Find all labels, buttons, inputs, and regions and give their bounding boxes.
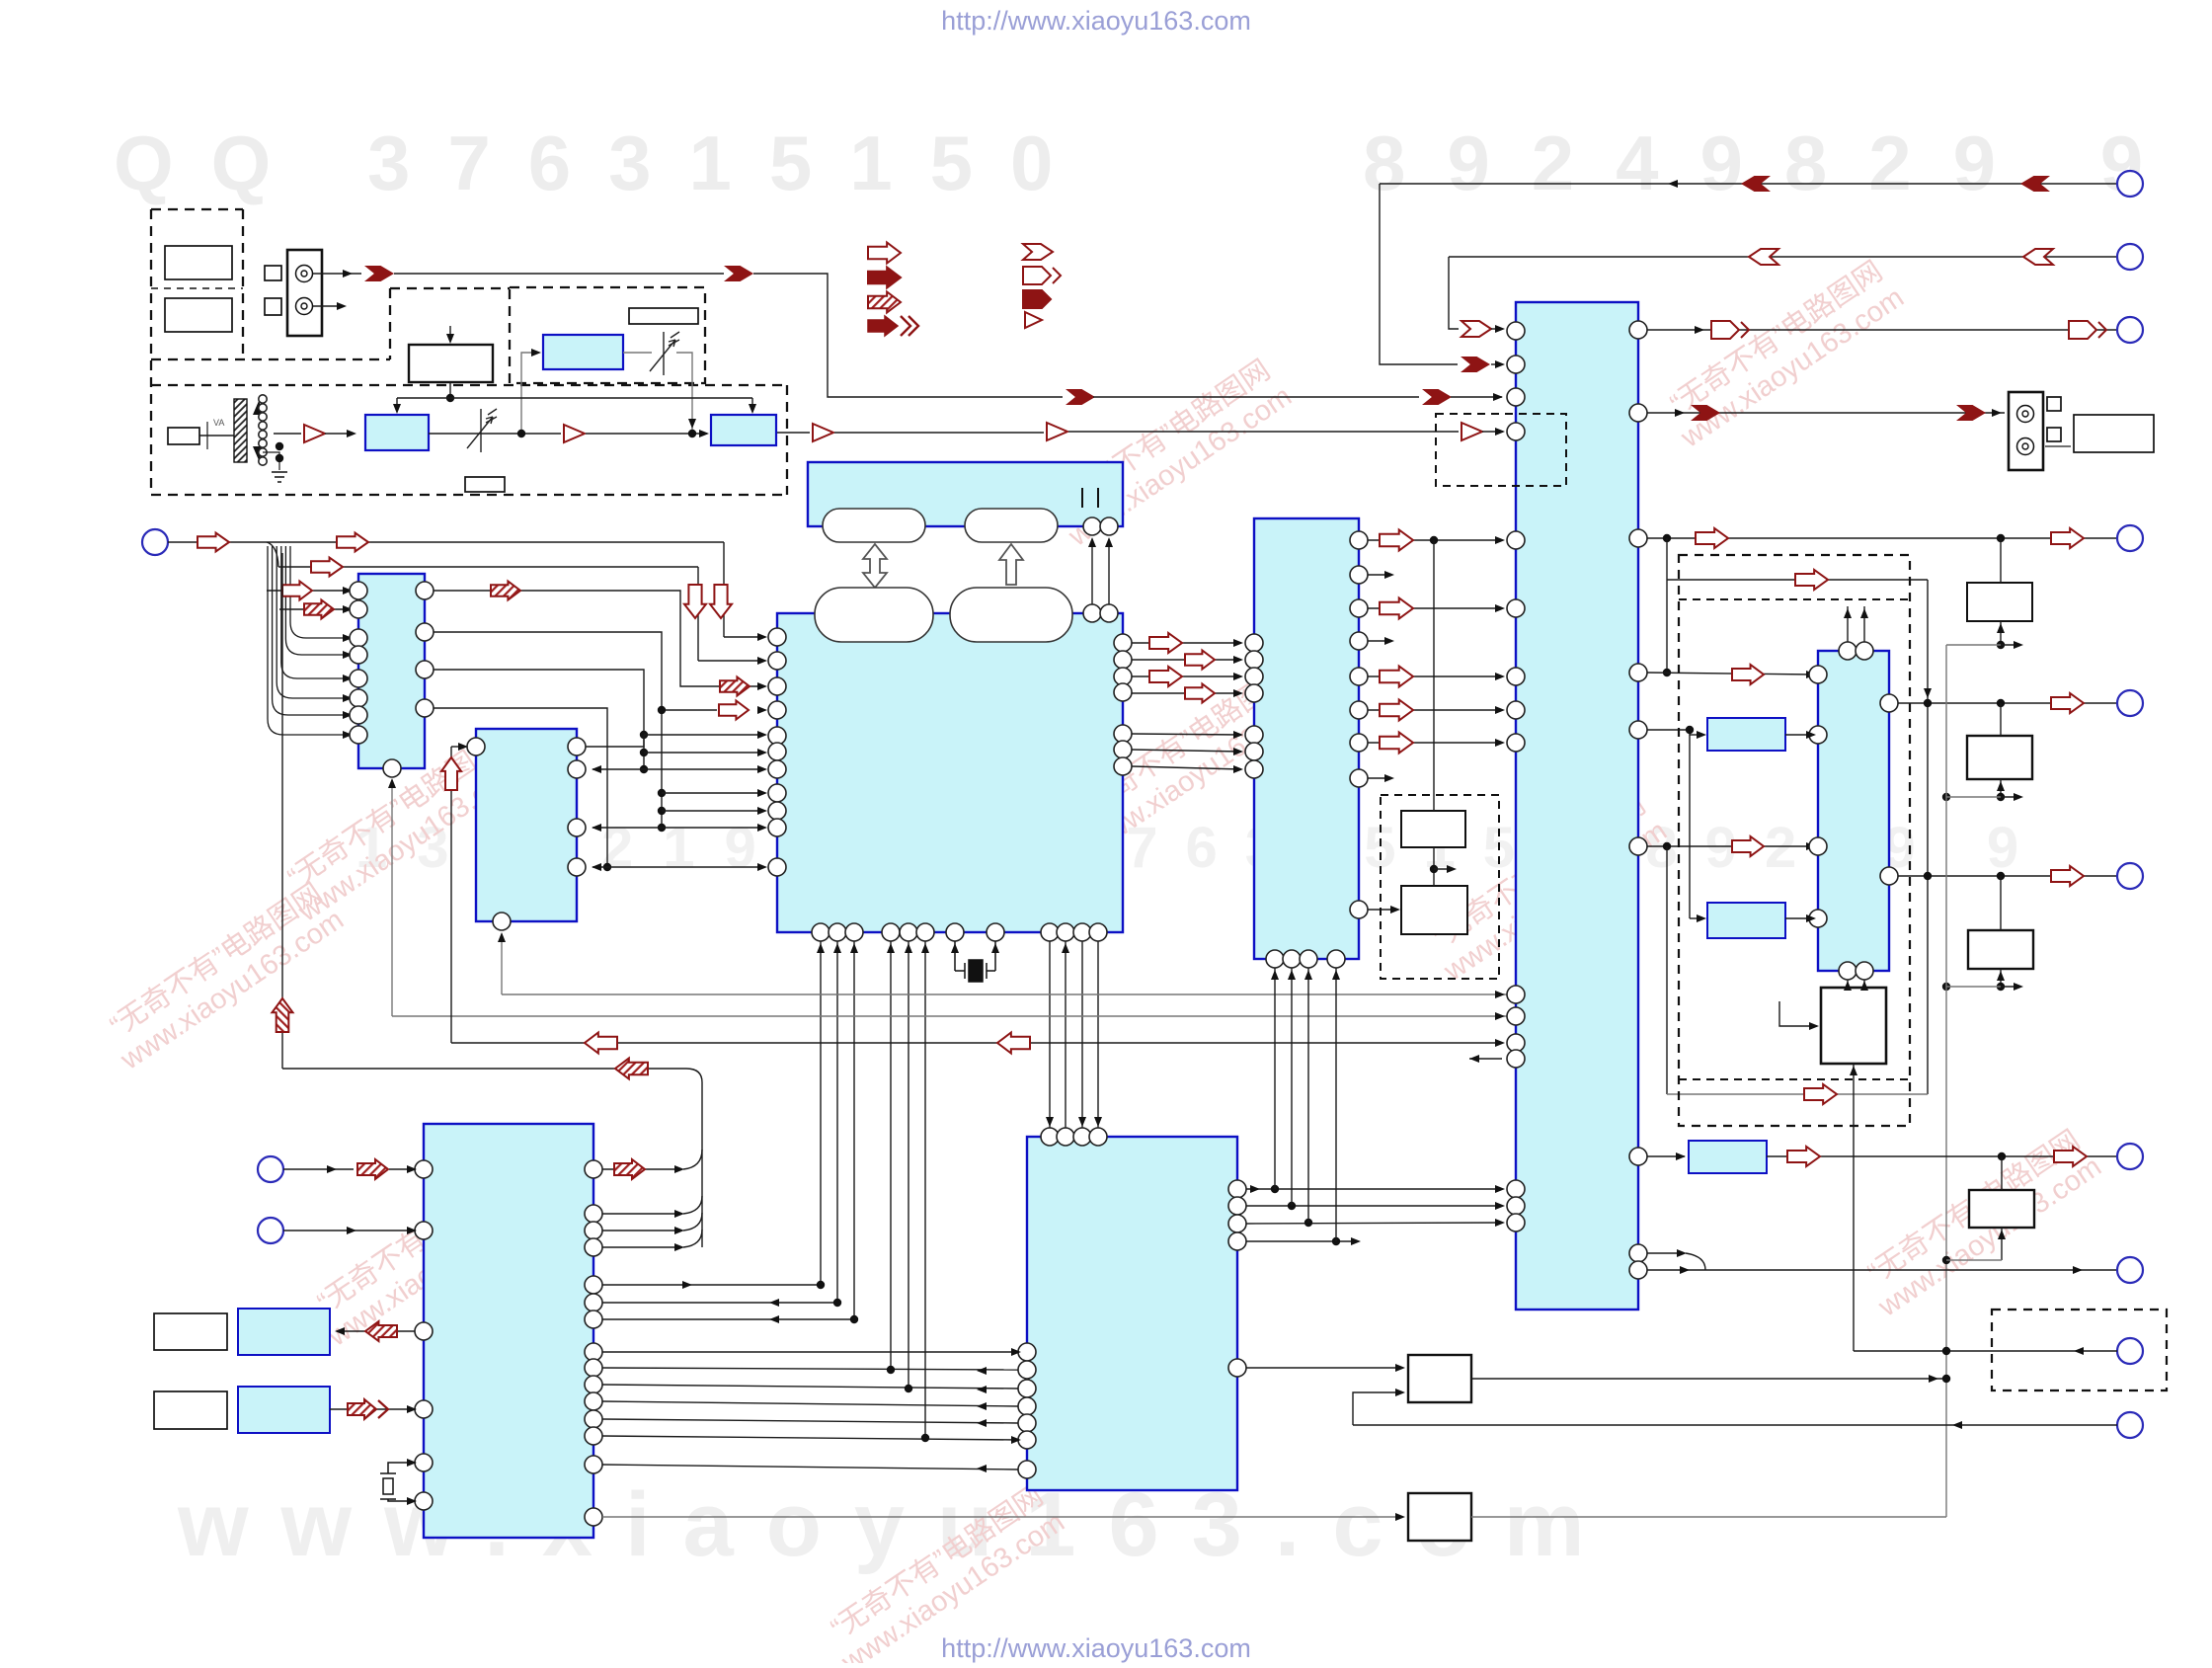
arrow solid line3 a [1066,389,1095,405]
ah buses up [817,943,929,953]
stadium DRAM1 [823,509,925,542]
wire BL1b [389,1168,415,1170]
wire pot to junction [676,353,692,431]
control bus x711 [701,1082,703,1247]
arrowhead into F2 [699,430,709,437]
RCA jack J1 [287,250,322,336]
arrow hatched B1 out [491,582,520,600]
arrow open r1 683 [1732,665,1764,684]
wire W2 bottom [2000,779,2002,797]
wire B4 1229 out [602,1213,681,1215]
DSP bar bottom pins [1083,517,1118,535]
switch triangle down [253,446,265,460]
legend arrow solid chevrons [868,316,918,336]
dashed box A right edge [242,209,244,359]
wire R1-M 1 [1847,980,1849,988]
bundle curve 1263 [683,1230,702,1247]
chevron left w6 b [2023,249,2053,265]
buffer triangle 2 [564,425,585,442]
dashed box D AGC [510,287,705,383]
ah b4c3 arrows [977,1348,1021,1472]
wire s1 in [1690,734,1703,736]
H left pins [1507,322,1525,1231]
jack J2 pad bottom [2047,428,2061,441]
C2 bottom pins [1266,950,1345,968]
wire h545 out [1647,537,2117,539]
wire DSP-C2 685 [1132,675,1241,677]
wire B4 1336 [602,1318,854,1320]
DSP right pins [1114,634,1132,775]
B3 bottom pin [493,913,511,930]
ah stub582 [1384,571,1394,579]
label rect ANT2 [165,298,232,332]
arrow big down x707 [684,585,706,618]
terminal circle R3t [2117,317,2143,343]
wire DSP-C2 668 [1132,659,1241,661]
wire N top [2001,1156,2003,1190]
wire G1 feed up [521,353,537,434]
junction 1238 [1304,1219,1312,1227]
label rect in box D [629,308,698,324]
wire bar-body link1 [1091,539,1093,604]
ah b4 1427 [407,1405,417,1413]
wire jack J2 link [2045,445,2071,447]
crystal X1 DSP [955,941,995,982]
arrow solid jack out [364,266,394,281]
arrow open loop1108 [1804,1084,1837,1104]
stadium DEC1 [815,588,933,642]
arrow solid w5 in [1461,357,1490,372]
wire B4 1319 [602,1302,837,1304]
junction W1 foot [1997,641,2005,649]
arrow open dc668 [1185,651,1215,670]
wire B4-C3 1483 [602,1465,1018,1469]
wire x1452 bus [1433,540,1435,811]
arrow solid w5 a [1741,176,1771,192]
wire W3 foot link [1946,986,2001,988]
ah r1 857 [1806,842,1816,850]
junction W2 foot [1942,793,2005,801]
legend arrow open [868,243,901,264]
wire G0 tee right [450,397,752,399]
wire BL1 [283,1168,354,1170]
wire B3 pin756 link [586,735,644,747]
arrow open w7 [2051,693,2084,713]
arrowhead into F1 [347,430,356,437]
terminal circle R9 [2117,1338,2143,1364]
dashed box I tuner ctrl [1436,414,1566,486]
junction w545 [1663,534,2005,542]
ah h719 [1495,706,1505,714]
arrow hatched up x286 [273,998,293,1032]
arrow open left y1056 a [585,1033,617,1054]
ah h369 [1495,360,1505,368]
loop y587 [1667,579,1928,581]
wire bus707 to DSP pin [698,660,764,662]
bus down x733 [723,542,725,637]
ah h685 [1495,673,1505,680]
wire M bottom [1853,1064,1855,1351]
rect L1 [154,1313,227,1350]
wire6 top [1449,256,2117,258]
wire switch rect link [199,435,234,437]
ah loop into w7 [1924,688,1932,698]
bus down x707 [697,567,699,661]
pentagon w3 b [2069,321,2106,339]
ah r1 top [1844,608,1868,618]
block preamp F1 [365,415,429,450]
wire C2-H 547 [1368,539,1502,541]
arrow open dc651 [1149,633,1182,653]
block CL2 [238,1387,330,1433]
ah 1257 [1351,1237,1361,1245]
block T1 [1689,1141,1767,1173]
legend arrow filled [868,268,901,288]
pentagon w3 a [1711,321,1749,339]
bus X1 [1945,645,1947,1517]
j1319 [833,1299,841,1307]
wire B4-C3 1385 [602,1368,1018,1370]
arrow open ch616 [1380,598,1413,619]
wire x457 up [450,747,452,1043]
buffer triangle 1 [304,425,325,442]
ah W2 bottom [1997,781,2005,791]
arrowhead DSP pin645 [757,633,767,641]
ah h333 [1495,325,1505,333]
wire audio main g [1482,431,1503,433]
ah bl1 [327,1165,337,1173]
arrow open w9 b [2054,1147,2087,1166]
arrow open ch547 [1380,530,1413,551]
junction G0 tee [446,394,454,402]
wire audio main b [325,433,353,435]
ah 1336 [769,1315,779,1323]
ah W3 stub [2014,983,2023,991]
ah into R1 bottom [1844,981,1868,991]
svg-text:VA: VA [213,418,224,428]
ah w10 [1680,1266,2083,1274]
wire10 [1647,1269,2117,1271]
wire s2 in [1690,917,1703,919]
wire W3 top [2000,876,2002,930]
wire G0 tee left [397,397,450,399]
bus x937 [924,941,926,1438]
rect V2 reg [1408,1493,1471,1541]
junction 1204 [1271,1185,1279,1193]
wire bus670 821 [662,810,764,812]
arrow open w545 a [1696,528,1728,548]
R1 bottom pins [1839,962,1873,980]
ah buses c3 [1046,943,1102,1127]
arrowhead B3 pin838 [592,824,601,832]
terminal circle BL1 [258,1156,283,1182]
dashed box A top [151,208,243,210]
wire into B1 pin617 [279,608,348,610]
ah b4 1246 [347,1227,417,1234]
ah r1 683 [1806,671,1816,678]
wire bus670 to pin719 [662,709,717,711]
bus C2 x1291 [1274,968,1276,1189]
ah 1229 [674,1210,684,1218]
wire jack J1 run [394,273,724,275]
wire bar-body link2 [1108,539,1110,604]
arrowhead DSP pin695 [757,682,767,690]
switch label rect [168,428,199,444]
wire C2 stub582 [1368,574,1390,576]
B4 right pins [585,1160,602,1526]
label rect jack J2 [2074,415,2154,452]
control bus y1082 [282,1068,686,1070]
block DSP upper bar [808,462,1123,526]
ah W2 stub [2014,793,2023,801]
arrow open TL1 [197,533,229,552]
wire5 top [1380,183,2117,185]
terminal circle R10 [2117,1412,2143,1438]
watermark pink rotated group [95,253,2106,1668]
RCA jack J2 [2009,392,2043,470]
wire B3 pin779 link [592,768,644,770]
ah h547 [1495,536,1505,544]
block IF B1 [358,574,425,768]
junction bus652 [640,731,648,773]
chevron right w6 in [1461,321,1491,337]
wire switch bracket [206,422,208,449]
junction w7 [1924,699,2005,707]
buffer triangle 3 [813,424,833,441]
wire jack to H end [1451,396,1502,398]
jack J1 pad top [265,266,281,280]
junction W3 foot [1942,983,2005,991]
junction 1688-857 [1663,842,1671,850]
bundle curve 1246 [683,1213,702,1231]
buffer triangle 4 [1047,423,1067,440]
bus DSP-C3 x1112 [1097,941,1099,1128]
ah v1 out [1929,1375,1938,1383]
wire s1 out [1785,734,1814,736]
block video enc C2 [1254,518,1359,959]
wire3 out [1647,329,2117,331]
rect V1 reg [1408,1355,1471,1402]
B1 left pins [350,582,367,744]
ah v1 in [1395,1364,1405,1372]
wire R1-M 2 [1863,980,1865,988]
svg-text:http://www.xiaoyu163.com: http://www.xiaoyu163.com [941,6,1251,36]
arrow hatched BL1 [357,1159,388,1179]
wire W2 foot link [1946,796,2001,798]
ah h752 [1495,739,1505,747]
wire B4 1263 out [602,1246,681,1248]
terminal circle R4 [2117,525,2143,551]
B1 right pins [416,582,434,717]
wire bus652 744 [644,734,764,736]
dashed bottom A/B/C [151,358,390,360]
terminal circle R7 [2117,1144,2143,1169]
wire split curve to y574 [267,542,278,567]
block amp F2 [711,415,776,445]
wire C2 stub649 [1368,640,1390,642]
wire G1 to pot [623,352,652,354]
legend small triangle [1025,312,1042,328]
junction 1711 [1686,726,1694,734]
arrowheads DSP 803-838 [757,789,767,832]
block audio proc R1 [1818,651,1889,971]
block G0 killer [409,345,493,382]
ah crystal [951,943,999,953]
wire bus652 762 [644,752,764,754]
ah w10 jog [1677,1249,1687,1257]
wire B4 to CL1 [341,1330,415,1332]
arrow open up x457 [441,757,461,790]
arrowhead into H audio pin [1495,428,1505,436]
wire audio main e [834,432,1044,434]
arrowhead B1 pin598 [343,587,353,595]
pot in box D [650,332,679,375]
wire J mid stub [1434,868,1454,870]
switch triangle up [253,401,265,415]
switch contact circles [259,395,267,465]
R1 left pins [1809,666,1827,927]
wire DSP-C2 702 [1132,692,1241,694]
ah w13 [2074,1347,2084,1355]
wire13 [1854,1350,2117,1352]
block system control H [1516,302,1638,1310]
arrow open DSP in719 [719,701,749,720]
wire C2-H 685 [1368,675,1502,677]
wire B1p678 run [434,670,644,769]
dashed box tuner left edge [150,209,152,495]
dashed box F top [151,384,787,386]
arrow open dc702 [1185,684,1215,703]
wire x457 to B3 [451,746,464,748]
dashed step vertical [389,288,391,359]
junction w8 [1924,872,2005,880]
wire9 [1647,1155,1685,1157]
junction audio pot2 [688,430,696,437]
R1 right pins [1880,694,1898,885]
wire B4-C3 1437 [602,1419,1018,1423]
arrow open ch719 [1380,700,1413,721]
wire top run y549 [267,541,724,543]
bundle curve 1184 [683,1150,702,1169]
ah 1301 [682,1281,692,1289]
switch hatched bar [234,399,247,462]
wire W2 top [2000,703,2002,736]
wire9b [1767,1155,2117,1157]
wire W1 foot link [1946,644,2001,646]
wire B1p717 run [434,708,607,867]
dashed K inner bottom [1679,1078,1910,1080]
wire6 in [1491,328,1502,330]
arrowheads bar links [1088,537,1113,547]
arrow solid w4 a [1691,405,1720,421]
loop x1688 down [1666,538,1668,673]
arrow solid line3 b [1422,389,1452,405]
dashed step horizontal [390,287,510,289]
junction bus 902 [887,1366,895,1374]
ah M up [1850,1066,1857,1075]
wire B4-C3 1369 [602,1351,1018,1353]
arrow hatched y1082 [615,1059,648,1079]
wire11 [1353,1424,2117,1426]
ah h1238 [1495,1219,1505,1227]
ah W3 bottom [1997,971,2005,981]
arrow hatched CL1 [365,1321,397,1341]
legend pentagon open [1023,267,1061,284]
loop lower x1688 [1666,846,1668,1094]
block delay G1 [543,335,623,369]
wire h739 out [1647,730,1690,918]
wire switch to ground [263,452,279,470]
bus x920 [908,941,909,1389]
wire h857 out [1647,845,1814,847]
ah c2 685 [1233,673,1243,680]
wire G0 bottom tee [449,382,451,398]
arrow solid hatch CL2 [348,1399,388,1419]
ah y1072 [1469,1055,1479,1063]
wire C3-H 1238 [1246,1223,1502,1224]
rect W1 [1967,583,2032,621]
wire jack J1 bottom out [313,305,341,307]
wire y1029 [392,1015,1507,1017]
label rect ANT1 [165,246,232,279]
wire10 jog curve [1686,1253,1705,1270]
ah 1319 [769,1299,779,1307]
wire fan to B1 pins [268,546,352,735]
wire y1072 stub [1469,1058,1502,1060]
rect M servo [1821,988,1886,1064]
j1301 [817,1281,825,1289]
DSP left pins [768,628,786,876]
wire r1 top stub1 [1847,606,1849,642]
DSP body top pins [1083,604,1118,622]
dashed box K outer [1679,555,1910,1126]
wire h681 out [1647,673,1814,675]
wire B4-C3 1402 [602,1385,1018,1389]
arrow big down x733 [710,585,732,618]
ah stub788 [1384,774,1394,782]
arrow solid jack mid [724,266,753,281]
wire G0 left drop [396,398,398,411]
legend pentagon filled [1023,290,1051,308]
legend chevron open [1023,244,1053,260]
wire10 jog [1647,1252,1684,1254]
ah B3 bottom [498,932,506,942]
ah b4 1184 [407,1165,417,1173]
dashed box P power [1992,1310,2167,1390]
dashed box F right [786,385,788,495]
ah w5 left [1668,180,1678,188]
wire5 drop [1380,184,1458,364]
C2 right pins [1350,531,1368,918]
wire y878 run [592,866,764,868]
wire DSP-C2 776 [1132,766,1241,769]
junction bus 920 [905,1385,912,1392]
wire audio main c [429,433,561,435]
wire C3 to V1 [1246,1367,1402,1369]
svg-text:89249829 9: 89249829 9 [1363,119,2184,206]
bus C2 x1353 [1335,968,1337,1241]
wire x508 up [501,934,503,994]
jack J1 ring top [296,266,313,282]
wire B4 1246 out [602,1230,681,1231]
R1 top pins [1839,642,1873,660]
bus x902 [890,941,892,1370]
junction 1257 [1332,1237,1340,1245]
ah s1 [1697,731,1706,739]
crystal X2 B4 [380,1463,415,1501]
stadium DRAM2 [965,509,1058,542]
junction bus 937 [921,1434,929,1442]
